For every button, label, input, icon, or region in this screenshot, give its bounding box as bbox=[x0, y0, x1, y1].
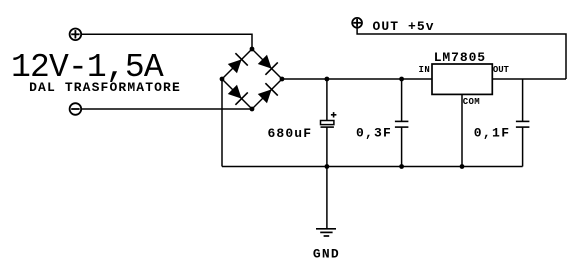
svg-text:GND: GND bbox=[313, 247, 339, 262]
terminal - (transformer minus input) bbox=[70, 103, 82, 115]
wire regulator OUT pin to right vertical bbox=[492, 78, 566, 80]
wire regulator COM pin down to bottom rail bbox=[461, 94, 463, 166]
node bottom rail at C2 bbox=[399, 164, 404, 169]
wire OUT terminal to regulator OUT (top right loop) bbox=[357, 28, 566, 79]
capacitor C1 680uF (electrolytic) bbox=[321, 79, 337, 167]
wire top rail (bridge right vertex to regulator IN) bbox=[282, 78, 432, 80]
node bridge bottom vertex bbox=[250, 107, 255, 112]
wire from - terminal to bridge bottom bbox=[81, 108, 252, 110]
svg-text:680uF: 680uF bbox=[268, 126, 312, 141]
wire from + terminal to bridge top bbox=[81, 34, 252, 49]
wire bottom rail bbox=[222, 166, 523, 168]
node bottom rail at COM bbox=[460, 164, 465, 169]
svg-text:IN: IN bbox=[419, 65, 430, 75]
svg-text:0,3F: 0,3F bbox=[356, 126, 391, 141]
ground bbox=[316, 229, 336, 236]
node bridge left vertex bbox=[220, 77, 225, 82]
svg-text:LM7805: LM7805 bbox=[434, 50, 486, 65]
terminal OUT +5v (plus) bbox=[352, 18, 362, 28]
diode D2 (top vertex to right vertex) bbox=[258, 55, 278, 75]
node top rail at C1 bbox=[325, 77, 330, 82]
node bridge right vertex bbox=[280, 77, 285, 82]
node bottom rail at C1/ground bbox=[325, 164, 330, 169]
bridge rectifier frame (diamond wires) bbox=[222, 49, 282, 109]
node top rail at C2 bbox=[399, 77, 404, 82]
diode D4 (bottom vertex to right vertex) bbox=[258, 83, 278, 103]
diode D1 (left vertex to top vertex) bbox=[228, 53, 248, 73]
svg-text:OUT +5v: OUT +5v bbox=[373, 19, 434, 34]
node bridge top vertex bbox=[250, 47, 255, 52]
terminal + (transformer plus input) bbox=[70, 29, 82, 41]
svg-text:OUT: OUT bbox=[493, 65, 510, 75]
svg-text:0,1F: 0,1F bbox=[474, 126, 509, 141]
svg-text:COM: COM bbox=[463, 97, 480, 107]
diode D3 (left vertex to bottom vertex) bbox=[228, 85, 248, 105]
svg-text:DAL TRASFORMATORE: DAL TRASFORMATORE bbox=[29, 80, 180, 95]
wire ground drop bbox=[326, 167, 328, 229]
capacitor C3 0,1F bbox=[516, 79, 530, 167]
wire bridge left vertex down to bottom rail bbox=[221, 79, 223, 167]
capacitor C2 0,3F bbox=[395, 79, 409, 167]
op-amp U1 LM7805 regulator box bbox=[432, 64, 492, 94]
